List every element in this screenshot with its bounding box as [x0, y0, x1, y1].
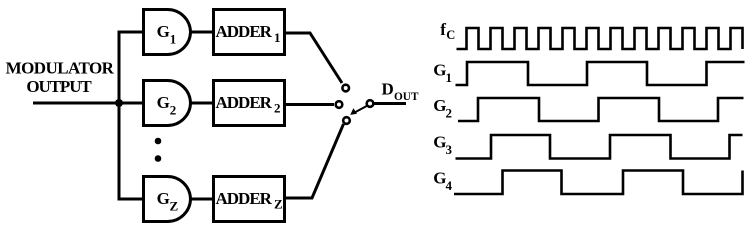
wire ADDER2 output	[285, 103, 334, 106]
label MODULATOR OUTPUT	[6, 58, 115, 96]
block ADDER2	[214, 81, 285, 126]
switch pole contact	[367, 100, 374, 107]
svg-text:G: G	[157, 22, 170, 41]
svg-text:G: G	[433, 132, 446, 151]
waveform G2	[458, 98, 744, 121]
svg-text:1: 1	[170, 31, 177, 46]
svg-text:2: 2	[170, 103, 177, 118]
svg-text:1: 1	[446, 70, 453, 85]
label G3	[433, 132, 452, 157]
wire stub to G2	[119, 102, 142, 105]
svg-text:4: 4	[446, 178, 453, 193]
svg-text:G: G	[433, 168, 446, 187]
svg-text:ADDER: ADDER	[216, 22, 273, 41]
svg-text:ADDER: ADDER	[216, 93, 273, 112]
wire modulator input	[33, 102, 119, 105]
wire stub to G1	[118, 31, 143, 34]
svg-text:G: G	[433, 96, 446, 115]
svg-text:2: 2	[274, 101, 281, 116]
svg-text:C: C	[446, 28, 455, 42]
wire stub to GZ	[118, 198, 143, 201]
waveform fC	[457, 28, 743, 49]
waveform G4	[454, 171, 743, 195]
svg-text:G: G	[157, 189, 170, 208]
svg-text:D: D	[382, 80, 394, 99]
wire GZ to ADDERZ	[190, 198, 213, 201]
ellipsis dots	[155, 138, 162, 145]
svg-text:ADDER: ADDER	[216, 189, 273, 208]
switch contact left	[336, 101, 343, 108]
gate G1	[144, 10, 191, 55]
label G1	[433, 61, 452, 86]
wire DOUT	[374, 102, 406, 105]
wire G2 to ADDER2	[190, 102, 213, 105]
svg-text:3: 3	[446, 142, 453, 157]
waveform G1	[456, 62, 745, 85]
svg-text:G: G	[433, 61, 446, 80]
label G2	[433, 96, 452, 121]
wire G1 to ADDER1	[190, 31, 213, 34]
wire input bus vertical	[118, 32, 121, 199]
svg-text:Z: Z	[274, 197, 283, 212]
svg-text:1: 1	[274, 30, 281, 45]
svg-text:OUT: OUT	[394, 91, 419, 103]
svg-text:OUTPUT: OUTPUT	[26, 77, 92, 96]
svg-text:Z: Z	[170, 199, 179, 214]
label fC	[440, 20, 455, 42]
svg-text:G: G	[157, 93, 170, 112]
gate G2	[144, 80, 191, 125]
label G4	[433, 168, 452, 193]
node input junction	[115, 99, 123, 107]
block ADDER1	[214, 10, 285, 55]
waveform G3	[456, 135, 743, 159]
switch contact top	[342, 85, 349, 92]
switch arm arrow	[350, 106, 367, 115]
wire ADDER1 output	[285, 33, 342, 83]
label DOUT	[382, 80, 419, 103]
block ADDERZ	[214, 177, 285, 222]
svg-text:MODULATOR: MODULATOR	[6, 58, 115, 77]
svg-text:2: 2	[446, 105, 453, 120]
gate GZ	[144, 176, 191, 221]
switch contact bottom	[343, 117, 350, 124]
wire ADDERZ output	[285, 124, 344, 198]
